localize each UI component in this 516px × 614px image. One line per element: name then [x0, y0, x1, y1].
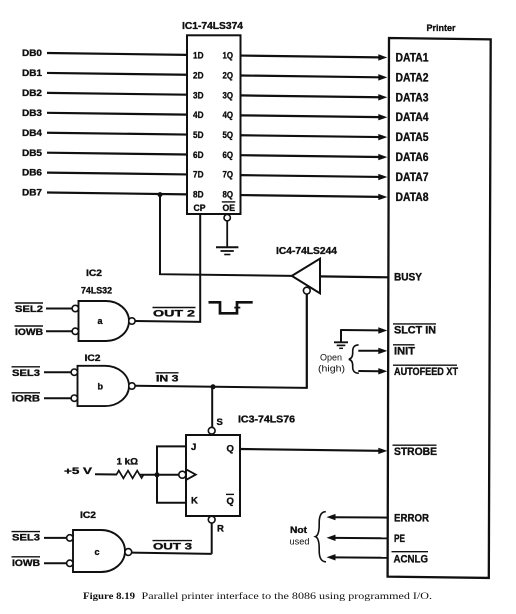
svg-text:SLCT IN: SLCT IN [394, 325, 436, 337]
svg-text:8Q: 8Q [223, 190, 234, 201]
wire buffer output to DB7 [160, 195, 292, 276]
negative pulse waveform symbol [209, 302, 253, 313]
node SEL3 label (gate c) [12, 532, 41, 544]
label IC2 (gate a) [86, 268, 102, 279]
svg-text:a: a [98, 316, 104, 326]
wire DB4 to 5D [47, 133, 187, 135]
wire 7Q to DATA7 [241, 174, 388, 180]
printer pin BUSY [394, 272, 423, 284]
svg-text:IOWB: IOWB [12, 558, 40, 569]
wire AUTOFEED XT [358, 368, 387, 374]
wire SEL3 (gate c) [44, 537, 67, 539]
flip-flop IC3 box [186, 435, 240, 516]
node DB7 label [22, 188, 42, 199]
wire SEL2 [46, 308, 72, 310]
svg-text:DB1: DB1 [22, 68, 43, 79]
ground at SLCT IN [334, 342, 348, 348]
wire 2Q to DATA2 [241, 74, 388, 80]
node IOWB label (gate a) [15, 326, 44, 338]
node DB0 label [22, 48, 42, 59]
wire DB0 to 1D [47, 53, 187, 55]
wire DB1 to 2D [47, 73, 187, 75]
wire 6Q to DATA6 [241, 154, 388, 160]
pin S bubble [208, 427, 215, 434]
svg-text:R: R [217, 523, 224, 534]
gate b input bubbles [71, 369, 77, 401]
svg-text:7D: 7D [193, 170, 204, 181]
wire 3Q to DATA3 [241, 94, 388, 100]
svg-text:5D: 5D [193, 130, 204, 141]
wire ACNLG [327, 554, 388, 560]
label IC2 (gate c) [80, 510, 96, 521]
node DB4 label [22, 128, 43, 139]
svg-text:used: used [290, 537, 310, 547]
printer box [388, 38, 491, 578]
svg-text:DATA7: DATA7 [396, 172, 429, 184]
svg-text:ACNLG: ACNLG [394, 553, 429, 565]
svg-text:+5 V: +5 V [64, 466, 93, 477]
wire junction to J and K [157, 446, 186, 502]
gate c input bubbles [67, 535, 73, 567]
OR gate a body [79, 301, 130, 341]
svg-text:(high): (high) [318, 364, 345, 374]
junction on DB7 [158, 192, 163, 197]
svg-text:SEL2: SEL2 [15, 304, 43, 315]
printer pin ACNLG [392, 552, 429, 566]
wire DB5 to 6D [47, 153, 187, 155]
svg-text:IC2: IC2 [80, 510, 96, 521]
node OUT 3 label [153, 541, 193, 553]
wire BUSY to buffer [320, 275, 388, 278]
printer pin PE [394, 533, 405, 545]
svg-text:Figure 8.19: Figure 8.19 [83, 592, 135, 602]
svg-text:2Q: 2Q [223, 70, 234, 81]
OR gate c body [73, 530, 125, 572]
svg-text:STROBE: STROBE [394, 446, 437, 458]
svg-text:Not: Not [290, 525, 307, 535]
printer pin INIT [393, 345, 415, 358]
OE bubble [224, 215, 230, 221]
wire IORB [44, 397, 71, 399]
caption Figure 8.19 [83, 591, 432, 602]
wire PE [327, 535, 388, 541]
svg-text:IC3-74LS76: IC3-74LS76 [238, 415, 295, 426]
svg-text:S: S [217, 417, 223, 428]
svg-text:CP: CP [194, 203, 207, 214]
wire SEL3 (gate b) [44, 371, 71, 373]
printer pin DATA3 [396, 92, 429, 104]
node DB5 label [22, 148, 43, 159]
OR gate b body [78, 366, 130, 406]
wire buffer enable from IN3 [306, 294, 308, 388]
svg-text:c: c [95, 547, 100, 557]
wire 5Q to DATA5 [241, 134, 388, 140]
label Not used [290, 525, 310, 547]
svg-text:5Q: 5Q [223, 130, 234, 141]
brace not-used [315, 512, 326, 562]
svg-text:OUT 3: OUT 3 [153, 542, 192, 553]
svg-text:Q: Q [227, 443, 234, 454]
svg-text:DB3: DB3 [22, 108, 42, 119]
svg-text:4Q: 4Q [223, 110, 234, 121]
clock edge wedge [186, 469, 196, 480]
node OUT 2 label [153, 308, 196, 320]
svg-text:DATA4: DATA4 [396, 112, 430, 124]
wire SLCT IN with ground [341, 327, 387, 342]
wire OUT3 to R [132, 553, 212, 554]
ground below OE [216, 247, 238, 254]
printer pin DATA7 [396, 172, 429, 184]
node SEL2 label [15, 303, 44, 315]
svg-text:DB6: DB6 [22, 168, 42, 179]
svg-text:Parallel printer interface to: Parallel printer interface to the 8086 u… [142, 591, 433, 602]
printer pin SLCT IN [393, 324, 436, 337]
pin J label [191, 442, 196, 453]
label 74LS32 [81, 285, 112, 296]
pin Q label [227, 443, 234, 454]
svg-text:IN 3: IN 3 [156, 374, 179, 385]
svg-text:DATA3: DATA3 [396, 92, 429, 104]
svg-text:2D: 2D [193, 70, 204, 81]
wire DB7 to 8D [47, 193, 187, 195]
junction IN3 to S [211, 384, 216, 389]
IC1 pin labels 1D-8D 1Q-8Q [193, 51, 233, 201]
wire IOWB (gate a) [46, 330, 72, 332]
node SEL3 label (gate b) [12, 367, 41, 379]
svg-text:DATA8: DATA8 [396, 192, 430, 204]
svg-text:ERROR: ERROR [394, 513, 429, 525]
label IC1-74LS374 [182, 21, 243, 32]
printer pin DATA6 [396, 152, 429, 164]
svg-text:SEL3: SEL3 [12, 368, 40, 379]
IC1 pin OE (active low) [222, 202, 236, 214]
svg-text:IC2: IC2 [86, 268, 102, 279]
pin R bubble [208, 516, 215, 523]
svg-text:1 kΩ: 1 kΩ [117, 456, 139, 467]
wire resistor to clock [140, 474, 179, 476]
svg-text:DB2: DB2 [22, 88, 42, 99]
svg-text:IC2: IC2 [85, 353, 101, 364]
svg-text:3Q: 3Q [223, 90, 234, 101]
wire 8Q to DATA8 [241, 194, 388, 200]
svg-text:J: J [191, 442, 196, 453]
label IC3-74LS76 [238, 415, 295, 426]
buffer enable bubble [303, 287, 310, 294]
node DB3 label [22, 108, 42, 119]
clock input bubble [179, 471, 186, 478]
wire IN3 [135, 294, 307, 388]
wire ERROR [327, 514, 388, 520]
wire DB6 to 7D [47, 173, 187, 175]
printer pin AUTOFEED XT [393, 365, 458, 378]
wire 1Q to DATA1 [241, 54, 388, 60]
printer pin DATA8 [396, 192, 430, 204]
svg-text:INIT: INIT [394, 346, 415, 358]
svg-text:IORB: IORB [12, 394, 40, 405]
svg-text:OUT 2: OUT 2 [153, 309, 195, 320]
buffer IC4 triangle [292, 259, 320, 294]
label 1 kOhm [117, 456, 139, 467]
label Printer [427, 23, 456, 33]
node DB6 label [22, 168, 42, 179]
junction J-K tie [155, 472, 160, 477]
resistor R1 1 kOhm [117, 471, 144, 479]
svg-text:AUTOFEED XT: AUTOFEED XT [394, 366, 458, 378]
svg-text:PE: PE [394, 533, 405, 545]
brace open-high [349, 345, 359, 373]
gate a output bubble [129, 318, 135, 324]
svg-text:DATA2: DATA2 [396, 72, 429, 84]
svg-text:DATA1: DATA1 [396, 53, 430, 65]
node IOWB label (gate c) [12, 557, 41, 569]
svg-text:DB5: DB5 [22, 148, 43, 159]
svg-text:IC1-74LS374: IC1-74LS374 [182, 21, 243, 32]
svg-text:Q: Q [227, 496, 234, 507]
node +5 V label [64, 466, 93, 477]
printer pin DATA5 [396, 132, 430, 144]
label IC2 (gate b) [85, 353, 101, 364]
svg-text:SEL3: SEL3 [12, 533, 40, 544]
wire DB3 to 4D [47, 113, 187, 115]
gate c output bubble [125, 549, 132, 556]
IC IC1 74LS374 octal latch box [187, 35, 241, 214]
wire Q to STROBE [241, 448, 388, 454]
svg-text:Printer: Printer [427, 23, 456, 33]
wire +5V to resistor [95, 473, 117, 475]
wire IN3 junction to S pin [211, 387, 213, 428]
gate b output bubble [129, 383, 135, 389]
printer pin ERROR [394, 513, 429, 525]
svg-text:K: K [191, 496, 198, 507]
printer pin DATA4 [396, 112, 430, 124]
pin R label [217, 523, 224, 534]
svg-text:OE: OE [223, 203, 236, 214]
svg-text:6D: 6D [193, 150, 204, 161]
pin K label [191, 496, 198, 507]
svg-text:8D: 8D [193, 190, 204, 201]
svg-text:7Q: 7Q [223, 170, 234, 181]
wire DB2 to 3D [47, 93, 187, 95]
svg-text:BUSY: BUSY [394, 272, 423, 284]
node IN 3 label [156, 373, 179, 385]
pin S label [217, 417, 223, 428]
wire OUT2 to CP [135, 214, 200, 322]
svg-text:DB4: DB4 [22, 128, 43, 139]
svg-text:DB7: DB7 [22, 188, 42, 199]
svg-text:IOWB: IOWB [15, 327, 43, 338]
svg-text:6Q: 6Q [223, 150, 234, 161]
wire IOWB (gate c) [44, 562, 67, 564]
svg-text:IC4-74LS244: IC4-74LS244 [276, 246, 337, 257]
svg-text:DATA6: DATA6 [396, 152, 429, 164]
wire 4Q to DATA4 [241, 114, 388, 120]
svg-text:Open: Open [320, 352, 342, 362]
pin Qbar label [226, 494, 234, 507]
svg-text:b: b [98, 382, 104, 392]
gate a input bubbles [72, 305, 78, 334]
printer pin DATA1 [396, 53, 430, 65]
wire INIT [358, 348, 387, 354]
printer pin DATA2 [396, 72, 429, 84]
label Open (high) [318, 352, 345, 373]
svg-text:DATA5: DATA5 [396, 132, 430, 144]
IC1 pin CP [194, 203, 207, 214]
wire OE to ground [226, 221, 228, 247]
svg-text:3D: 3D [193, 90, 204, 101]
svg-text:1D: 1D [193, 51, 204, 62]
svg-text:1Q: 1Q [223, 51, 234, 62]
svg-text:74LS32: 74LS32 [81, 285, 112, 296]
svg-text:4D: 4D [193, 110, 204, 121]
node IORB label [12, 393, 41, 405]
wire R to OUT3 [211, 523, 213, 554]
printer pin STROBE [393, 445, 438, 458]
node DB1 label [22, 68, 43, 79]
node DB2 label [22, 88, 42, 99]
svg-text:DB0: DB0 [22, 48, 42, 59]
label IC4-74LS244 [276, 246, 337, 257]
